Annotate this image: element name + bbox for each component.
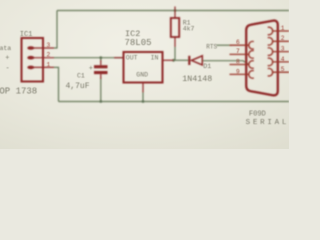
svg-text:F09D: F09D: [249, 110, 266, 118]
svg-text:OUT: OUT: [126, 55, 138, 62]
svg-text:+: +: [89, 65, 93, 73]
svg-text:1: 1: [281, 25, 285, 32]
svg-text:4,7uF: 4,7uF: [66, 82, 90, 91]
svg-text:2: 2: [47, 52, 51, 59]
svg-text:9: 9: [236, 68, 240, 75]
svg-text:1: 1: [47, 61, 51, 68]
svg-text:Data: Data: [0, 45, 11, 52]
svg-text:2: 2: [281, 35, 285, 42]
svg-text:RTS: RTS: [206, 43, 217, 50]
svg-text:4k7: 4k7: [183, 25, 195, 32]
svg-text:GND: GND: [136, 72, 148, 79]
svg-text:78L05: 78L05: [125, 38, 152, 48]
svg-text:1N4148: 1N4148: [182, 75, 212, 84]
svg-text:SOP 1738: SOP 1738: [0, 87, 37, 97]
svg-text:7: 7: [236, 48, 240, 55]
svg-text:6: 6: [236, 39, 240, 46]
svg-text:5: 5: [281, 66, 285, 73]
svg-text:IN: IN: [151, 55, 159, 62]
svg-text:3: 3: [281, 46, 285, 53]
svg-text:+: +: [5, 55, 9, 63]
svg-text:SERIAL: SERIAL: [246, 119, 289, 127]
svg-text:4: 4: [281, 56, 285, 63]
svg-text:C1: C1: [77, 73, 85, 80]
svg-text:D1: D1: [203, 63, 211, 71]
svg-text:8: 8: [236, 58, 240, 65]
svg-text:IC1: IC1: [20, 31, 33, 39]
svg-text:3: 3: [47, 42, 51, 49]
svg-text:-: -: [6, 65, 10, 73]
